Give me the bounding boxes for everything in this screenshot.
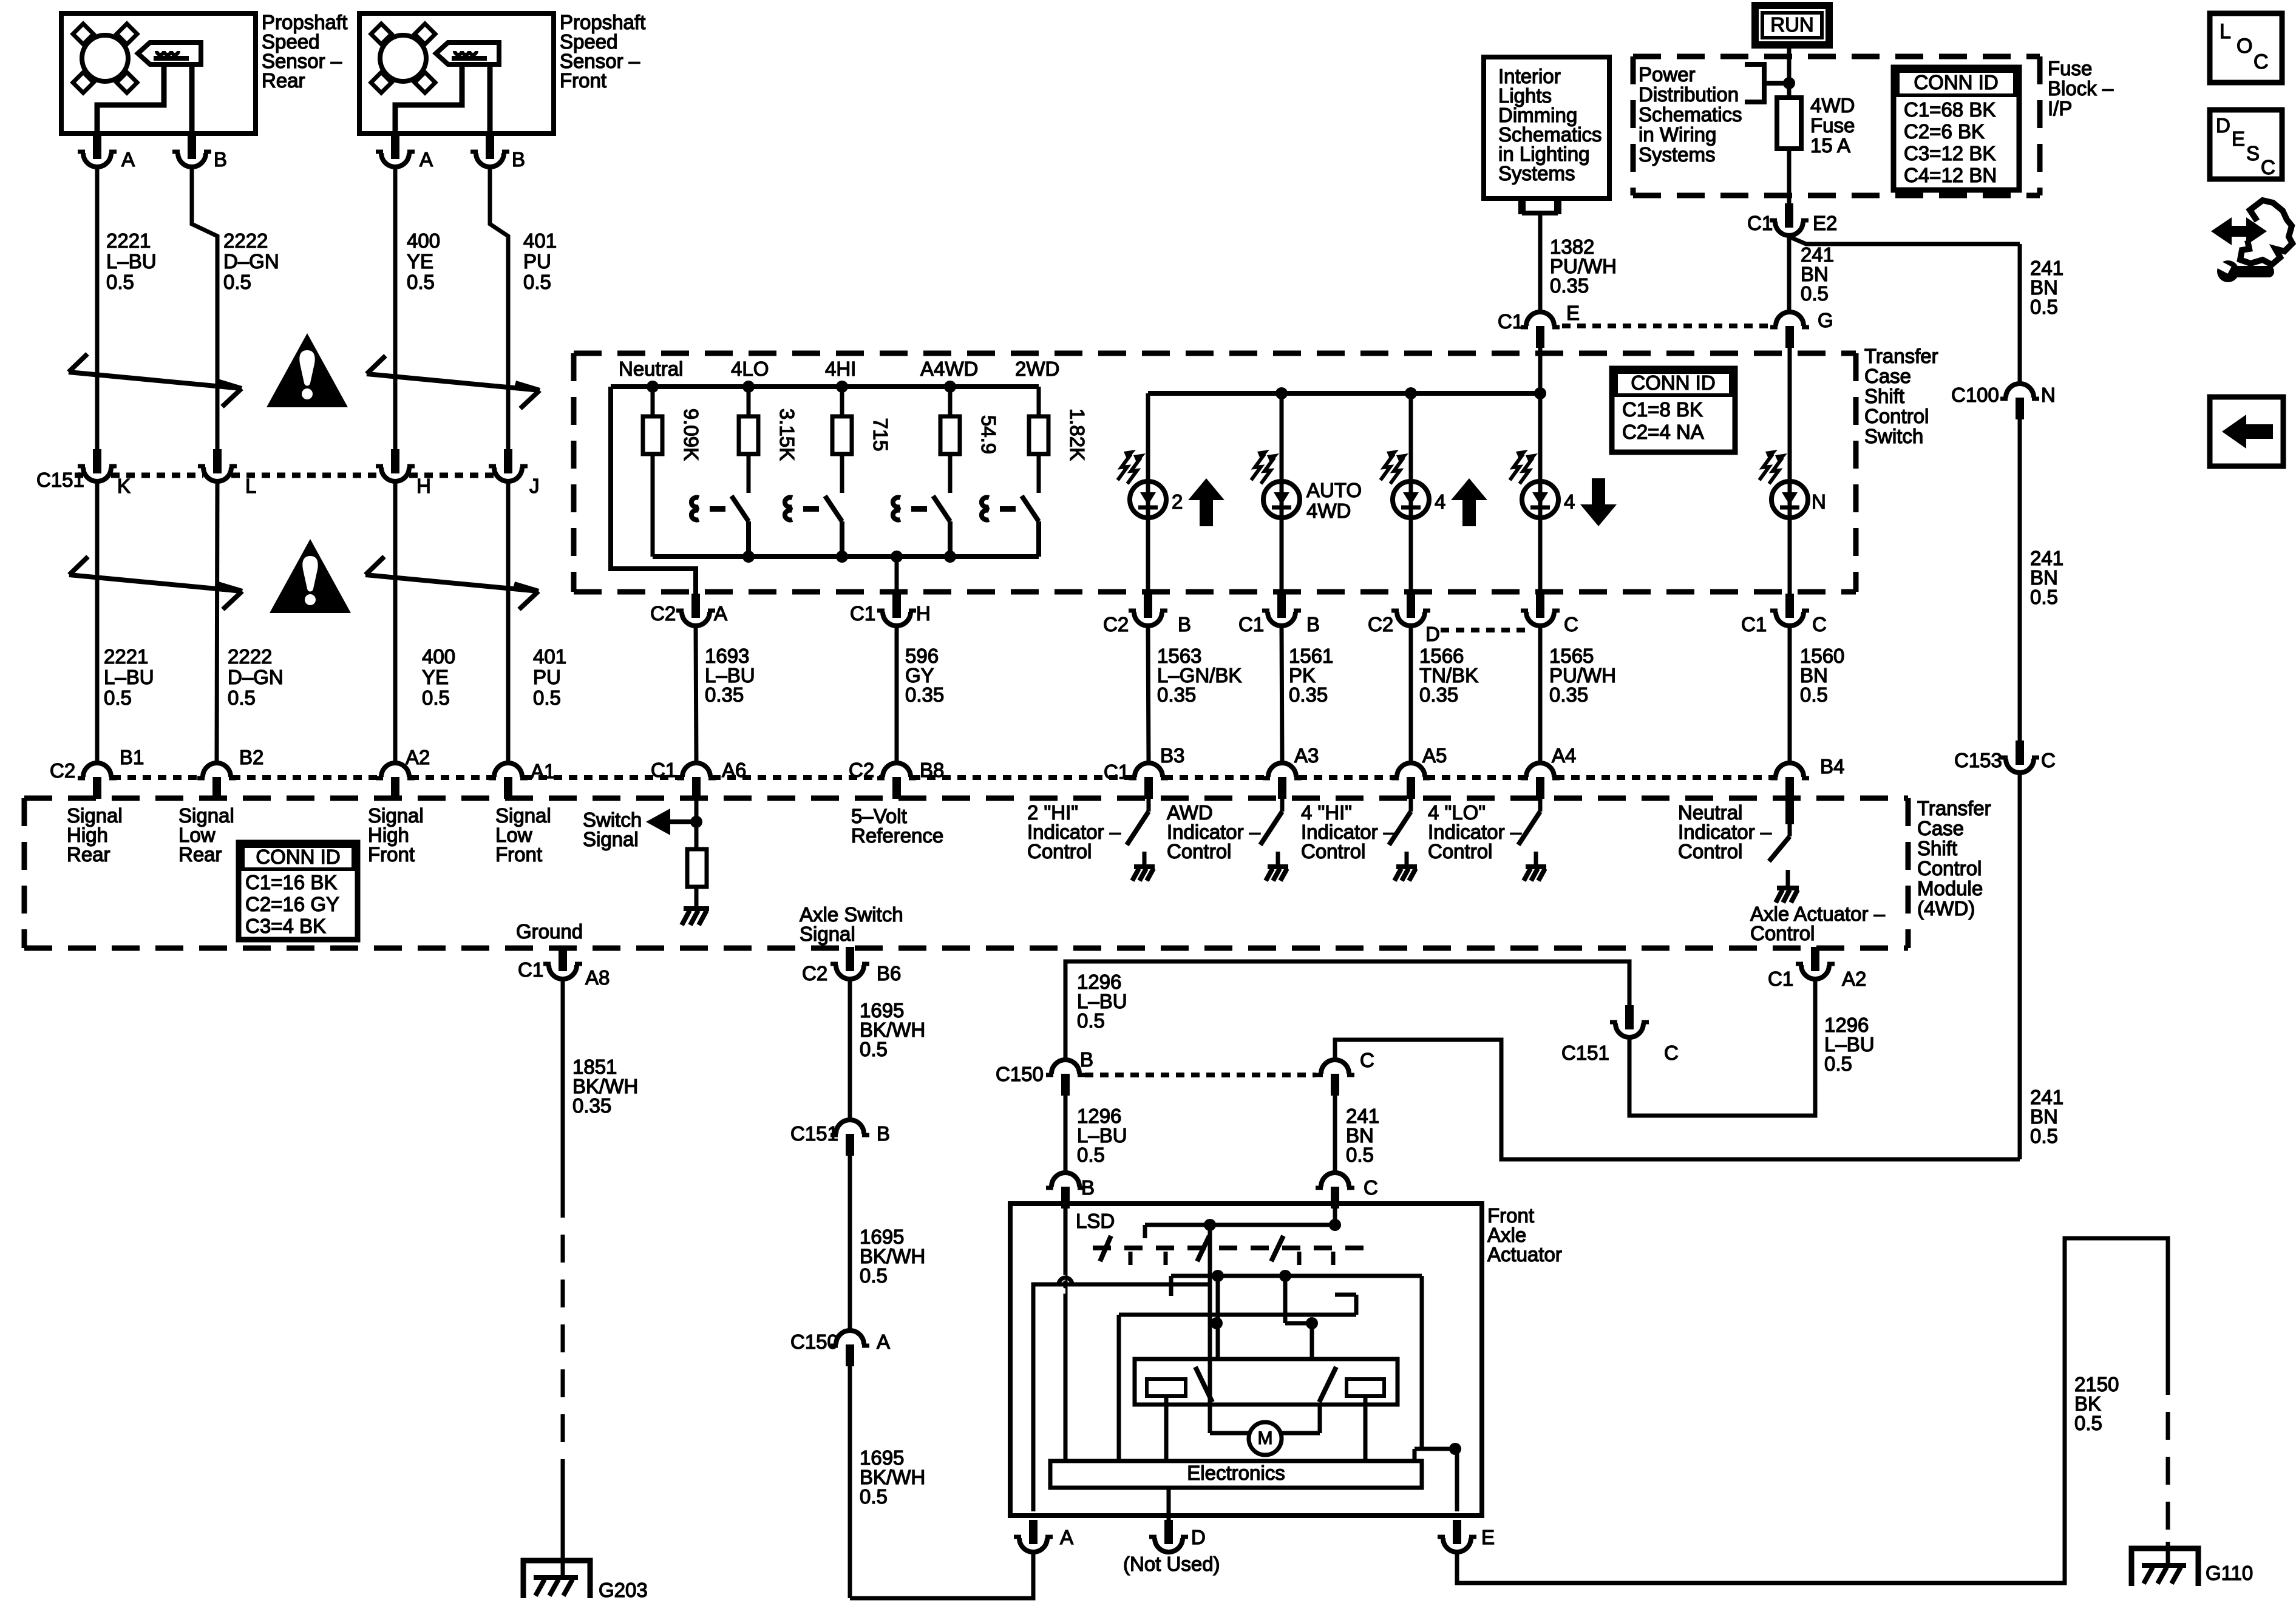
- svg-text:B: B: [877, 1122, 890, 1145]
- svg-text:D–GN: D–GN: [228, 666, 284, 688]
- wire 2222 lower: [217, 481, 217, 763]
- wire 1851 solid lower: [561, 1481, 565, 1578]
- warning triangle upper: [267, 333, 348, 407]
- svg-text:A5: A5: [1422, 744, 1447, 767]
- adjust icon double arrow: [2211, 217, 2267, 245]
- connector C1 pin B (AUTO4WD): [1262, 594, 1301, 626]
- rear sensor internal lead to pin B: [189, 64, 195, 135]
- svg-text:C: C: [1812, 613, 1827, 636]
- gear icon inside rear sensor: [73, 24, 137, 93]
- svg-text:C100: C100: [1951, 384, 1999, 406]
- connector body dotted line (module header row): [523, 775, 682, 780]
- wire fuse to connector E2: [1787, 149, 1792, 207]
- svg-text:C151: C151: [790, 1122, 838, 1145]
- connector body dotted line (module header row): [410, 775, 493, 780]
- connector C1 pin E2: [1770, 203, 1809, 236]
- svg-text:Reference: Reference: [851, 824, 943, 847]
- svg-text:Control: Control: [1864, 405, 1929, 427]
- svg-text:0.5: 0.5: [1801, 282, 1829, 305]
- svg-text:15 A: 15 A: [1810, 134, 1850, 157]
- svg-text:B: B: [1081, 1176, 1095, 1199]
- wire 1695 upper: [848, 979, 852, 1120]
- adjust icon outline: [2240, 200, 2292, 265]
- LED N (neutral): [1759, 450, 1808, 518]
- junction dot top rail Neutral: [647, 381, 659, 393]
- svg-text:Rear: Rear: [67, 843, 110, 866]
- hop on B wire: [1059, 1278, 1065, 1291]
- svg-text:L–BU: L–BU: [106, 250, 157, 273]
- svg-text:0.5: 0.5: [523, 271, 551, 293]
- svg-text:0.5: 0.5: [104, 686, 132, 709]
- svg-text:Transfer: Transfer: [1917, 797, 1991, 819]
- wire actuator E to G110 routing: [1457, 1238, 2168, 1583]
- svg-text:C2=16 GY: C2=16 GY: [245, 893, 339, 915]
- svg-text:Transfer: Transfer: [1864, 345, 1938, 367]
- front sensor internal lead to pin B: [487, 64, 493, 135]
- svg-text:AUTO: AUTO: [1306, 479, 1362, 501]
- connector C150 pin A: [830, 1331, 869, 1366]
- svg-text:C150: C150: [996, 1063, 1044, 1085]
- junction dot bottom rail: [836, 551, 848, 563]
- svg-text:Signal: Signal: [583, 828, 639, 850]
- actuator wire v1843: [1117, 1315, 1121, 1461]
- wire from A6 into module: [695, 799, 699, 849]
- junction dot LED rail: [1275, 387, 1288, 399]
- svg-text:A6: A6: [722, 759, 746, 781]
- switch signal drop to pin H: [895, 557, 899, 597]
- wire E2 to G: [1787, 236, 1792, 312]
- svg-text:CONN ID: CONN ID: [1914, 71, 1998, 93]
- svg-text:Control: Control: [1301, 840, 1365, 863]
- connector C151 body dashed line: [111, 473, 203, 478]
- svg-text:0.35: 0.35: [1289, 683, 1328, 706]
- wire C151C up and across: [1065, 961, 1629, 1060]
- connector C1 pin A8: [543, 947, 582, 979]
- wire 400 lower: [393, 481, 398, 763]
- svg-text:0.35: 0.35: [705, 683, 744, 706]
- junction node on switch signal wire: [690, 816, 702, 828]
- svg-text:0.5: 0.5: [422, 686, 450, 709]
- coil lead right: [1364, 1396, 1368, 1461]
- svg-text:B: B: [214, 148, 227, 171]
- switch signal arrow: [668, 819, 696, 824]
- svg-text:C1=16 BK: C1=16 BK: [245, 871, 337, 893]
- connector C2 pin B (2HI): [1129, 594, 1167, 626]
- coil lead left: [1164, 1396, 1169, 1461]
- svg-text:RUN: RUN: [1770, 13, 1814, 36]
- warning triangle lower: [270, 539, 351, 613]
- gear icon inside front sensor: [371, 24, 435, 93]
- svg-text:B: B: [512, 148, 525, 171]
- switch top rail: [611, 384, 1039, 389]
- junction dot LED rail: [1405, 387, 1417, 399]
- junction dot E wire: [1449, 1443, 1461, 1455]
- wire C153 down: [2018, 773, 2022, 1159]
- interior lights box twin stubs: [1518, 198, 1526, 214]
- connector C2 pin B1: [78, 763, 117, 799]
- lead 4HI resistor to switch: [840, 454, 844, 493]
- svg-text:Front: Front: [495, 843, 542, 866]
- svg-text:C2: C2: [1368, 613, 1393, 636]
- svg-text:Fuse: Fuse: [1810, 114, 1855, 137]
- svg-text:0.5: 0.5: [533, 686, 561, 709]
- wire 241 BN routing to C150: [1335, 1040, 2020, 1159]
- junction dot LED rail: [1534, 387, 1546, 399]
- break symbol rear pair lower: [69, 557, 242, 609]
- connector C2 pin B2: [197, 763, 236, 799]
- svg-text:L: L: [2220, 20, 2231, 43]
- svg-text:Schematics: Schematics: [1639, 103, 1742, 126]
- connector body dotted line (module header row): [1427, 775, 1526, 780]
- connector body dotted line (module header row): [712, 775, 881, 780]
- up arrow (4HI): [1451, 478, 1487, 500]
- module CONN ID table: [239, 842, 358, 940]
- svg-text:C3=12 BK: C3=12 BK: [1904, 142, 1995, 164]
- resistor lead 4HI: [840, 387, 844, 416]
- connector body dotted line (module header row): [1164, 775, 1268, 780]
- lead 4LO resistor to switch: [747, 454, 751, 493]
- svg-text:D: D: [1191, 1526, 1206, 1548]
- LED 4HI: [1381, 450, 1429, 518]
- connector C1 pin A2: [1796, 947, 1835, 979]
- switch + ground: neutral indicator / axle actuator control: [1785, 799, 1794, 824]
- wire 1695 to actuator pin A: [850, 1552, 1033, 1598]
- svg-text:0.5: 0.5: [1077, 1144, 1105, 1166]
- connector C153 pin C: [2000, 741, 2039, 773]
- LED cathode wire: [1538, 518, 1543, 597]
- resistor 715 (4HI): [832, 416, 852, 454]
- svg-text:0.5: 0.5: [2030, 1125, 2058, 1147]
- ground G110: [2131, 1548, 2198, 1586]
- switch left rail: [611, 387, 696, 597]
- svg-text:PU: PU: [523, 250, 551, 273]
- wire 2221 lower: [95, 481, 100, 763]
- svg-text:E: E: [2232, 127, 2245, 150]
- svg-text:4HI: 4HI: [825, 358, 856, 380]
- svg-text:Block –: Block –: [2048, 77, 2114, 100]
- svg-text:B3: B3: [1160, 744, 1184, 767]
- svg-text:2221: 2221: [104, 645, 148, 668]
- Transfer Case Shift Control Switch dashed box: [574, 351, 1856, 356]
- junction dot bottom rail: [891, 551, 903, 563]
- LED cathode wire: [1146, 518, 1150, 597]
- transistor blade left: [1195, 1367, 1212, 1402]
- LSD teeth: [1129, 1252, 1133, 1265]
- motor lead right: [1282, 1431, 1320, 1436]
- wire 1851 dashed middle: [561, 1190, 565, 1481]
- LED 2HI: [1118, 450, 1166, 518]
- svg-text:A4WD: A4WD: [920, 358, 978, 380]
- motor lead left: [1210, 1431, 1249, 1436]
- connector pin G: [1770, 312, 1809, 348]
- svg-text:N: N: [1812, 490, 1826, 513]
- switch + ground: 4 HI indicator control: [1409, 799, 1413, 812]
- svg-text:Systems: Systems: [1639, 143, 1716, 166]
- svg-text:B4: B4: [1820, 755, 1844, 778]
- connector actuator pin B: [1046, 1173, 1085, 1209]
- junction dot top rail A4WD: [944, 381, 956, 393]
- svg-text:Shift: Shift: [1917, 837, 1957, 859]
- connector C1 pin B4: [1770, 763, 1809, 799]
- wire 596 GY: [895, 626, 899, 763]
- connector C151 pin C: [1610, 1005, 1649, 1037]
- svg-text:Control: Control: [1428, 840, 1492, 863]
- svg-text:D: D: [2216, 114, 2230, 137]
- svg-text:G110: G110: [2206, 1562, 2253, 1584]
- interior lights dimming box: [1484, 57, 1609, 198]
- switch contact 2WD: [982, 498, 989, 520]
- rear sensor internal lead to pin A: [97, 64, 164, 135]
- svg-text:0.5: 0.5: [860, 1485, 888, 1508]
- svg-text:A1: A1: [531, 760, 555, 782]
- resistor lead Neutral: [651, 387, 655, 416]
- Transfer Case Shift Control Module dashed box: [24, 796, 1908, 801]
- svg-text:Switch: Switch: [1864, 425, 1923, 447]
- wire 1695 lower: [848, 1366, 852, 1598]
- actuator pin A: [1014, 1520, 1053, 1552]
- connector C1 pin A6: [677, 763, 716, 799]
- pickup icon inside front sensor: [436, 42, 499, 64]
- svg-text:0.5: 0.5: [2030, 296, 2058, 318]
- svg-text:Front: Front: [368, 843, 415, 866]
- actuator pin E: [1438, 1520, 1476, 1552]
- svg-text:H: H: [416, 475, 431, 497]
- svg-text:C: C: [2261, 156, 2275, 178]
- svg-text:G: G: [1818, 309, 1833, 331]
- svg-text:C4=12 BN: C4=12 BN: [1904, 164, 1997, 186]
- svg-text:0.5: 0.5: [228, 686, 256, 709]
- connector pin A5: [1391, 763, 1430, 799]
- connector pin C (4LO): [1521, 594, 1560, 626]
- switch contact 4HI: [785, 498, 792, 520]
- actuator wire v2342: [1420, 1276, 1424, 1449]
- wire 400 upper (H): [393, 167, 398, 453]
- svg-text:B: B: [1080, 1048, 1093, 1071]
- svg-text:(4WD): (4WD): [1917, 897, 1975, 920]
- LED 4LO: [1510, 450, 1558, 518]
- LOC icon box: [2210, 13, 2282, 83]
- actuator wire v1993: [1208, 1225, 1212, 1433]
- svg-text:C: C: [1564, 613, 1578, 636]
- svg-text:C1: C1: [1768, 968, 1793, 990]
- svg-text:4: 4: [1435, 490, 1445, 513]
- svg-text:3.15K: 3.15K: [776, 408, 798, 461]
- connector C151 pin K: [78, 449, 117, 481]
- svg-text:PU: PU: [533, 666, 561, 688]
- connector C151 pin J: [489, 449, 528, 481]
- svg-text:C2=6 BK: C2=6 BK: [1904, 120, 1985, 143]
- svg-text:A: A: [1060, 1526, 1073, 1548]
- actuator wire v2161: [1310, 1323, 1314, 1359]
- actuator wire h2166: [1119, 1313, 1356, 1317]
- svg-text:Electronics: Electronics: [1187, 1462, 1285, 1484]
- connector C1 pin B3: [1129, 763, 1168, 799]
- svg-text:Control: Control: [1027, 840, 1092, 863]
- E pin internal wire: [1415, 1447, 1457, 1451]
- connector C2 pin A (switch signal): [676, 594, 715, 626]
- svg-text:E: E: [1481, 1526, 1495, 1548]
- wire 1563: [1148, 626, 1149, 763]
- svg-text:C2: C2: [50, 759, 75, 782]
- svg-text:Case: Case: [1917, 817, 1964, 839]
- resistor 9.09K (Neutral): [643, 416, 662, 454]
- svg-text:A4: A4: [1552, 744, 1576, 767]
- adjust icon wrench: [2217, 260, 2239, 282]
- svg-text:(Not Used): (Not Used): [1123, 1553, 1220, 1575]
- svg-text:C151: C151: [1561, 1042, 1609, 1064]
- LED cathode wire: [1280, 518, 1284, 597]
- connector C1 pin E: [1521, 312, 1560, 348]
- svg-text:C2=4 NA: C2=4 NA: [1622, 421, 1704, 443]
- LED branch 4HI: [1409, 393, 1413, 481]
- svg-text:A: A: [877, 1331, 890, 1353]
- svg-text:YE: YE: [422, 666, 449, 688]
- motor M: [1249, 1422, 1282, 1455]
- connector C2 pin D (4HI): [1391, 594, 1430, 626]
- actuator wire h2102: [1171, 1274, 1422, 1278]
- svg-text:Power: Power: [1639, 63, 1696, 86]
- svg-text:A: A: [419, 148, 433, 171]
- svg-text:0.5: 0.5: [1077, 1009, 1105, 1032]
- junction dots h2018: [1204, 1219, 1216, 1231]
- svg-text:Shift: Shift: [1864, 385, 1904, 407]
- svg-text:401: 401: [533, 645, 566, 668]
- actuator wire v2006: [1216, 1276, 1220, 1359]
- svg-text:E2: E2: [1813, 212, 1837, 234]
- svg-text:C1: C1: [518, 958, 543, 981]
- svg-text:0.5: 0.5: [1824, 1053, 1852, 1075]
- svg-text:Signal: Signal: [800, 923, 855, 945]
- component box: Propshaft Speed Sensor - Front: [359, 13, 554, 134]
- resistor 54.9 (A4WD): [940, 416, 960, 454]
- wire 1693 L-BU: [696, 626, 696, 763]
- transistor blade right: [1319, 1367, 1336, 1402]
- svg-text:Case: Case: [1864, 365, 1911, 387]
- relay box: [1135, 1359, 1398, 1405]
- svg-text:C1: C1: [1238, 613, 1264, 636]
- resistor lead 2WD: [1037, 387, 1041, 416]
- connector body dotted line (module header row): [112, 775, 202, 780]
- connector body dotted D-C: [1441, 628, 1527, 632]
- wire 2150 dashed: [2166, 1367, 2170, 1542]
- svg-text:Rear: Rear: [262, 69, 305, 92]
- svg-text:0.5: 0.5: [1346, 1144, 1374, 1166]
- wire 1296 from A2: [1629, 979, 1815, 1116]
- wire 1566: [1409, 626, 1413, 763]
- svg-text:Control: Control: [1917, 857, 1982, 880]
- svg-text:C: C: [1360, 1049, 1374, 1071]
- wire G to LED N: [1788, 348, 1792, 481]
- connector body dotted line (module header row): [912, 775, 1134, 780]
- Front Axle Actuator box: [1010, 1204, 1482, 1516]
- down arrow (4LO): [1580, 504, 1617, 526]
- svg-text:4WD: 4WD: [1306, 500, 1351, 522]
- svg-text:CONN ID: CONN ID: [1631, 371, 1715, 394]
- svg-text:Neutral: Neutral: [619, 358, 683, 380]
- switch contact A4WD: [893, 498, 900, 520]
- svg-text:0.35: 0.35: [1157, 683, 1196, 706]
- svg-text:J: J: [529, 475, 540, 497]
- junction dot bottom rail: [944, 551, 956, 563]
- svg-text:C151: C151: [36, 469, 84, 491]
- connector C2 pin B6: [830, 947, 869, 979]
- svg-text:0.35: 0.35: [1550, 274, 1589, 297]
- fuse block dashed box: [1633, 54, 2040, 59]
- actuator wire v2234: [1354, 1295, 1359, 1315]
- resistor inside module (switch signal pull-down): [687, 849, 707, 887]
- DESC icon box: [2210, 110, 2282, 179]
- junction dot bottom rail: [742, 551, 755, 563]
- svg-text:B: B: [1306, 613, 1320, 636]
- connector actuator pin C: [1316, 1173, 1354, 1209]
- svg-text:C1=8 BK: C1=8 BK: [1622, 398, 1703, 421]
- svg-text:A2: A2: [406, 746, 430, 768]
- svg-text:Fuse: Fuse: [2048, 57, 2092, 80]
- svg-text:Systems: Systems: [1498, 162, 1575, 185]
- switch contact 4LO: [691, 497, 699, 520]
- fuse 4WD 15A: [1777, 98, 1801, 149]
- connector C100 pin N: [2000, 384, 2039, 419]
- wire actuator C internal: [1333, 1209, 1337, 1225]
- svg-text:C1: C1: [1498, 310, 1523, 333]
- wire 1560: [1788, 626, 1792, 763]
- svg-text:D: D: [1425, 623, 1440, 645]
- actuator wire v2117: [1283, 1276, 1288, 1323]
- svg-text:Distribution: Distribution: [1639, 83, 1739, 106]
- lead 2WD resistor to switch: [1037, 454, 1041, 493]
- svg-text:4LO: 4LO: [731, 358, 769, 380]
- LED branch AUTO4WD: [1280, 393, 1284, 481]
- junction dot top rail 4LO: [742, 381, 755, 393]
- svg-text:Ground: Ground: [516, 920, 583, 943]
- front sensor internal lead to pin A: [395, 64, 462, 135]
- svg-text:M: M: [1258, 1428, 1273, 1448]
- junction dots h2102: [1212, 1270, 1224, 1282]
- Electronics box: [1050, 1461, 1422, 1488]
- switch + ground: 4 LO indicator control: [1538, 799, 1543, 812]
- svg-text:2221: 2221: [106, 229, 151, 252]
- wire 2222 upper with jog (L): [192, 167, 217, 453]
- svg-text:715: 715: [869, 418, 892, 451]
- svg-text:C: C: [2254, 50, 2269, 73]
- svg-text:0.5: 0.5: [106, 271, 134, 293]
- junction dots h2180: [1211, 1317, 1223, 1329]
- LED cathode wire: [1788, 518, 1792, 597]
- svg-text:0.5: 0.5: [2030, 586, 2058, 608]
- svg-text:O: O: [2237, 35, 2252, 58]
- connector pin A3: [1263, 763, 1302, 799]
- svg-text:L–BU: L–BU: [104, 666, 154, 688]
- svg-text:C2: C2: [1103, 613, 1129, 636]
- actuator wire h2180: [1285, 1321, 1312, 1326]
- up arrow (2HI): [1188, 478, 1224, 500]
- svg-text:0.35: 0.35: [1549, 683, 1588, 706]
- svg-text:C1: C1: [1741, 613, 1767, 636]
- wire 1851 solid upper: [561, 979, 565, 1190]
- wire 1561: [1282, 626, 1282, 763]
- switch + ground: AWD indicator control: [1280, 799, 1285, 812]
- LSD blade 3: [1271, 1236, 1283, 1261]
- svg-text:L: L: [245, 475, 256, 497]
- connector C1 pin C (N): [1770, 594, 1809, 626]
- svg-text:E: E: [1566, 302, 1580, 324]
- ground inside module (below resistor): [682, 909, 709, 925]
- svg-text:G203: G203: [599, 1579, 648, 1601]
- LSD blade 1: [1100, 1236, 1111, 1261]
- svg-text:0.5: 0.5: [407, 271, 435, 293]
- svg-text:LSD: LSD: [1076, 1210, 1115, 1232]
- LED branch 2HI: [1146, 393, 1150, 481]
